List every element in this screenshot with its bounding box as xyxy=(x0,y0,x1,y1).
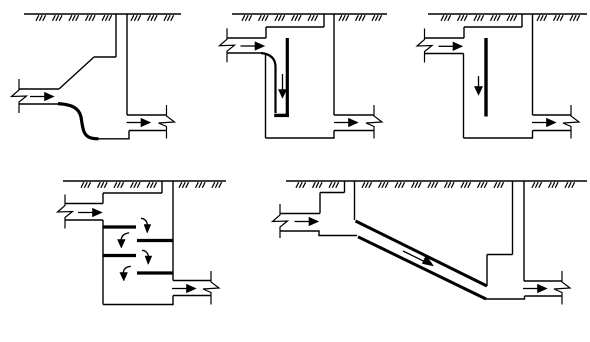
diagram 5 top slab xyxy=(320,192,345,194)
diagram 4 step baffle 3 (thick) xyxy=(103,254,136,257)
diagram 5 left wall above inlet xyxy=(319,193,321,214)
diagram 5: manhole with inclined drop pipe - ground line xyxy=(286,180,587,182)
diagram 4 inlet pipe top xyxy=(65,203,103,205)
diagram 5 outlet pipe top xyxy=(524,280,562,282)
diagram 1 shaft left wall xyxy=(115,14,117,57)
diagram 5 chamber floor xyxy=(486,296,525,299)
diagram 5 outlet shaft left wall lower xyxy=(486,255,488,287)
diagram 2 chamber floor xyxy=(266,131,335,139)
diagram 1 outlet pipe top xyxy=(127,114,167,116)
diagram 2 inlet pipe bottom xyxy=(227,52,263,54)
diagram 4 inlet flow arrow xyxy=(78,208,102,216)
diagram 1 ground hatching xyxy=(36,15,174,21)
diagram 3 downward flow arrow xyxy=(475,76,483,95)
diagram 2 right wall xyxy=(333,14,335,115)
diagram 5 ground hatching xyxy=(296,182,575,188)
diagram 5 inlet pipe break xyxy=(273,204,288,238)
diagram 2 left wall above inlet xyxy=(265,27,267,38)
diagram 1 external drop curve (thick) xyxy=(58,104,99,139)
diagram 5 inclined pipe top (thick) xyxy=(356,221,488,286)
diagram 5 inlet pipe bottom xyxy=(280,231,357,236)
diagram 2 ground hatching xyxy=(242,15,382,21)
diagram 1 inlet flow arrow xyxy=(30,92,54,100)
diagram 5 outlet flow arrow xyxy=(523,284,547,292)
diagram 3: manhole with vertical baffle - ground line xyxy=(428,13,587,15)
diagram 2 neck left wall xyxy=(323,14,325,27)
diagram 2 top slab xyxy=(266,26,324,28)
diagram 2 left wall below inlet xyxy=(265,53,267,138)
diagram 5 inclined pipe bottom (thick) xyxy=(358,237,486,299)
diagram 1 inlet flare diagonal xyxy=(59,57,94,89)
diagram 4 left wall below inlet xyxy=(102,220,104,305)
diagram 3 outlet pipe bottom xyxy=(533,130,572,132)
diagram 4 step baffle 1 (thick) xyxy=(103,225,136,228)
diagram 4: cascade drop manhole - ground line xyxy=(63,180,226,182)
diagram 3 left wall above inlet xyxy=(463,27,465,38)
diagram 5 inclined flow arrow xyxy=(403,251,434,266)
diagram 4 step baffle 2 (thick) xyxy=(137,239,173,242)
diagram 2: manhole with inside drop pipe - ground line xyxy=(232,13,387,15)
diagram 4 outlet pipe top xyxy=(173,280,211,282)
diagram 1: manhole with external drop pipe - ground line xyxy=(24,13,181,15)
diagram 4 step baffle 4 (thick) xyxy=(137,271,173,274)
diagram 4 cascade arrow C xyxy=(142,250,152,264)
diagram 1 chamber floor xyxy=(97,131,129,139)
diagram 3 chamber floor xyxy=(464,131,533,139)
diagram 5 outlet shaft right wall xyxy=(523,181,525,281)
diagram 5 outlet pipe bottom xyxy=(525,295,563,297)
diagram 4 cascade arrow A xyxy=(141,218,151,233)
diagram 2 drop pipe bottom (thick) xyxy=(274,114,289,117)
diagram 2 outlet flow arrow xyxy=(334,118,358,126)
diagram 1 shaft shoulder xyxy=(94,56,116,58)
diagram 1 outlet pipe break xyxy=(159,105,175,139)
diagram 2 outlet pipe top xyxy=(334,114,374,116)
diagram 3 outlet flow arrow xyxy=(532,118,556,126)
diagram 1 inlet pipe top xyxy=(19,88,59,90)
diagram 2 inlet flow arrow xyxy=(241,42,265,50)
diagram 3 outlet pipe break xyxy=(563,105,579,139)
diagram 3 top slab xyxy=(464,26,522,28)
diagram 2 outlet pipe break xyxy=(366,105,382,139)
diagram 4 cascade arrow B xyxy=(118,233,130,248)
diagram 2 drop pipe flow arrow xyxy=(279,74,287,98)
diagram 4 top slab xyxy=(103,192,162,194)
diagram 5 inlet flow arrow xyxy=(295,217,319,225)
diagram 4 outlet pipe bottom xyxy=(173,295,211,297)
diagram 3 inlet flow arrow xyxy=(439,42,463,50)
diagram 4 right wall xyxy=(172,181,174,281)
diagram 1 inlet pipe break xyxy=(12,79,27,113)
diagram 5 outlet pipe break xyxy=(554,271,570,305)
diagram 3 inlet pipe top xyxy=(425,37,465,39)
diagram 2 inlet pipe break xyxy=(220,28,235,62)
diagram 1 shaft right wall xyxy=(126,14,128,115)
diagram 4 ground hatching xyxy=(81,182,222,188)
diagram 3 neck left wall xyxy=(521,14,523,27)
diagram 5 neck left wall xyxy=(344,181,346,193)
diagram 3 outlet pipe top xyxy=(533,114,572,116)
diagram 3 baffle plate (thick) xyxy=(484,38,487,117)
diagram 5 chamber right wall upper xyxy=(354,181,356,220)
diagram 2 drop pipe inlet curve xyxy=(261,53,276,113)
diagram 3 right wall xyxy=(532,14,534,115)
diagram 5 outlet shaft left wall upper xyxy=(512,181,514,255)
diagram 2 outlet pipe bottom xyxy=(334,130,374,132)
diagram 5 inlet pipe top xyxy=(280,213,320,215)
diagram 4 chamber floor xyxy=(103,296,173,305)
diagram 3 left wall below inlet xyxy=(463,54,465,139)
diagram 3 inlet pipe break xyxy=(417,29,432,63)
diagram 5 outlet shaft ledge xyxy=(487,254,513,256)
diagram 2 drop pipe outer wall (thick) xyxy=(286,38,289,114)
diagram 4 cascade arrow D xyxy=(120,266,131,281)
diagram 1 outlet pipe bottom xyxy=(129,130,167,132)
diagram 3 inlet pipe bottom xyxy=(425,53,464,55)
diagram 1 outlet flow arrow xyxy=(127,118,151,126)
diagram 4 left wall above inlet xyxy=(102,193,104,204)
diagram 4 inlet pipe break xyxy=(58,195,73,229)
diagram 2 inlet pipe top xyxy=(227,37,266,39)
diagram 3 ground hatching xyxy=(441,15,580,21)
diagram 1 inlet pipe bottom xyxy=(20,103,59,105)
diagram 4 inlet pipe bottom xyxy=(65,219,103,221)
diagram 4 neck left wall xyxy=(161,181,163,193)
diagram 4 outlet pipe break xyxy=(203,271,219,305)
diagram 4 outlet flow arrow xyxy=(172,284,196,292)
